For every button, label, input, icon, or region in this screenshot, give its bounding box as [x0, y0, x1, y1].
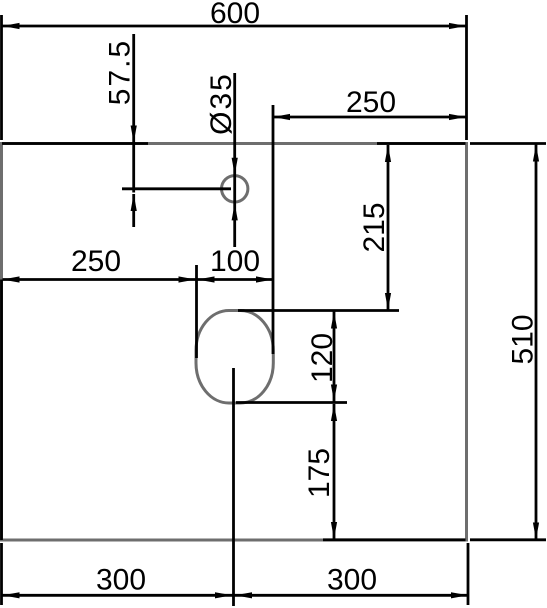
- panel left edge black overlay: [0, 280, 3, 541]
- panel top edge black overlays: [2, 142, 546, 145]
- extension line x196: [195, 265, 198, 358]
- dim line 600: [3, 23, 467, 29]
- cutout bottom reference line: [236, 401, 347, 404]
- svg-text:120: 120: [306, 333, 339, 383]
- dim 57.5 vertical line: [131, 34, 137, 227]
- panel bottom edge black overlays: [323, 538, 546, 541]
- extension line right bottom: [467, 543, 470, 605]
- svg-text:175: 175: [303, 448, 336, 498]
- label 600: [210, 0, 260, 30]
- faucet hole ø35: [222, 176, 248, 202]
- label 300 right: [327, 564, 377, 597]
- dim line 300+300 bottom: [3, 592, 469, 598]
- extension line right top: [465, 15, 468, 140]
- label 120: [306, 333, 339, 383]
- extension line left top: [0, 15, 3, 140]
- hole centerline: [122, 187, 231, 190]
- centerline x233.5: [232, 368, 235, 606]
- dim line 250/100 mid: [3, 276, 274, 282]
- svg-text:510: 510: [507, 314, 540, 364]
- extension line x273: [272, 105, 275, 354]
- dim line 120: [331, 312, 337, 402]
- svg-text:215: 215: [358, 202, 391, 252]
- panel outline 600x510: [2, 144, 467, 541]
- svg-text:250: 250: [346, 86, 396, 119]
- label 175: [303, 448, 336, 498]
- svg-text:Ø35: Ø35: [205, 72, 238, 135]
- svg-text:300: 300: [327, 564, 377, 597]
- label ø35: [205, 72, 238, 135]
- extension line left bottom: [0, 543, 3, 605]
- dim line 510: [533, 145, 539, 540]
- label 215: [358, 202, 391, 252]
- svg-text:250: 250: [71, 245, 121, 278]
- label 250 mid: [71, 245, 121, 278]
- label 510: [507, 314, 540, 364]
- cutout top reference line: [238, 309, 399, 312]
- drain cutout 100x120: [196, 311, 273, 404]
- dim line 215: [385, 145, 391, 310]
- label 100: [210, 245, 260, 278]
- label 57.5: [104, 39, 137, 105]
- svg-text:300: 300: [96, 564, 146, 597]
- label 300 left: [96, 564, 146, 597]
- svg-text:100: 100: [210, 245, 260, 278]
- dim line 250 top: [273, 114, 466, 120]
- label 250 top: [346, 86, 396, 119]
- dim ø35 vertical line: [232, 73, 238, 247]
- svg-text:600: 600: [210, 0, 260, 30]
- dim line 175: [331, 404, 337, 539]
- svg-text:57.5: 57.5: [104, 39, 137, 105]
